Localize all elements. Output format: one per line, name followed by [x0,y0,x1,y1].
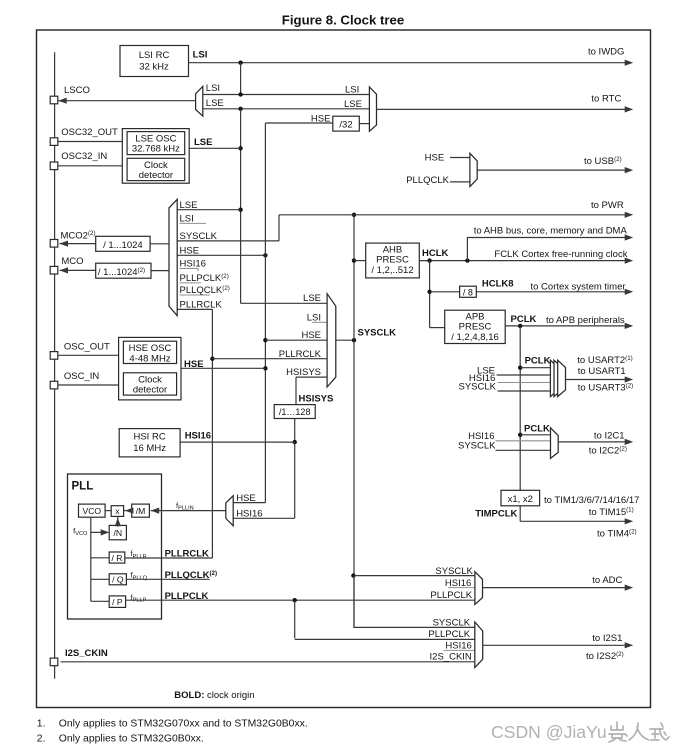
svg-text:SYSCLK: SYSCLK [180,231,218,242]
svg-text:Figure 8. Clock tree: Figure 8. Clock tree [282,12,404,27]
svg-text:HCLK: HCLK [422,248,449,259]
svg-text:to PWR: to PWR [591,200,624,211]
svg-text:Only applies to STM32G0B0xx.: Only applies to STM32G0B0xx. [59,734,204,745]
svg-text:1.: 1. [37,719,46,730]
svg-text:/ R: / R [112,553,123,563]
svg-text:to APB peripherals: to APB peripherals [546,315,625,326]
svg-text:x1, x2: x1, x2 [508,494,533,505]
svg-text:PLLRCLK: PLLRCLK [180,300,223,311]
svg-text:BOLD: clock origin: BOLD: clock origin [174,690,254,701]
svg-text:SYSCLK: SYSCLK [433,617,471,628]
svg-text:/ 1,2,..512: / 1,2,..512 [371,265,413,276]
svg-text:detector: detector [133,385,167,396]
svg-text:/ 1...1024: / 1...1024 [103,240,143,251]
svg-text:PCLK: PCLK [511,314,537,325]
svg-text:LSI RC: LSI RC [139,50,170,61]
svg-text:PLLQCLK: PLLQCLK [406,175,449,186]
svg-text:/ 8: / 8 [463,287,473,297]
svg-text:2.: 2. [37,734,46,745]
svg-text:to RTC: to RTC [591,94,621,105]
svg-text:to I2S1: to I2S1 [592,633,622,644]
svg-text:OSC_OUT: OSC_OUT [64,341,110,352]
svg-text:FCLK Cortex free-running clock: FCLK Cortex free-running clock [494,249,627,260]
svg-text:PCLK: PCLK [525,356,551,367]
svg-text:PLLPCLK: PLLPCLK [428,629,470,640]
svg-text:HSE OSC: HSE OSC [129,343,172,354]
svg-text:LSE OSC: LSE OSC [135,133,176,144]
svg-text:PRESC: PRESC [376,255,409,266]
svg-text:LSI: LSI [180,214,194,225]
svg-text:HSE: HSE [180,245,200,256]
svg-text:HSE: HSE [301,330,321,341]
svg-text:/ 1,2,4,8,16: / 1,2,4,8,16 [451,332,499,343]
svg-text:LSE: LSE [194,137,212,148]
svg-text:HCLK8: HCLK8 [482,279,514,290]
svg-text:SYSCLK: SYSCLK [459,382,497,393]
svg-text:to IWDG: to IWDG [588,46,624,57]
svg-text:PLL: PLL [72,480,94,492]
svg-text:to USART1: to USART1 [578,366,626,377]
svg-text:VCO: VCO [82,506,101,516]
svg-text:LSCO: LSCO [64,85,90,96]
svg-text:I2S_CKIN: I2S_CKIN [65,648,108,659]
svg-text:HSISYS: HSISYS [299,393,334,404]
svg-text:HSI16: HSI16 [185,431,211,442]
svg-text:I2S_CKIN: I2S_CKIN [430,651,472,662]
svg-text:/32: /32 [339,119,352,130]
svg-text:PLLPCLK: PLLPCLK [430,590,472,601]
svg-text:LSE: LSE [180,200,198,211]
svg-text:OSC32_IN: OSC32_IN [61,151,107,162]
svg-text:HSE: HSE [425,153,445,164]
svg-text:LSE: LSE [303,293,321,304]
svg-text:LSI: LSI [345,85,359,96]
svg-text:to USART3(2): to USART3(2) [578,383,633,394]
svg-text:32.768 kHz: 32.768 kHz [132,144,180,155]
svg-text:MCO: MCO [61,256,83,267]
svg-text:to TIM1/3/6/7/14/16/17: to TIM1/3/6/7/14/16/17 [544,495,639,506]
svg-text:LSI: LSI [307,312,321,323]
svg-text:HSI16: HSI16 [236,508,262,519]
svg-text:CSDN @JiaYu: CSDN @JiaYu [491,722,607,742]
svg-text:detector: detector [139,170,173,181]
svg-text:to USART2(1): to USART2(1) [577,355,632,366]
svg-text:/M: /M [136,506,146,516]
svg-text:16 MHz: 16 MHz [133,443,166,454]
svg-text:to AHB bus, core, memory and D: to AHB bus, core, memory and DMA [474,226,628,237]
svg-text:/ Q: / Q [112,575,124,585]
svg-text:to I2C1: to I2C1 [594,431,625,442]
svg-text:HSI16: HSI16 [445,640,471,651]
svg-text:LSI: LSI [193,50,208,61]
svg-text:TIMPCLK: TIMPCLK [475,508,517,519]
svg-text:to Cortex system timer: to Cortex system timer [531,281,626,292]
svg-text:x: x [115,506,120,516]
svg-text:to ADC: to ADC [592,575,622,586]
svg-text:4-48 MHz: 4-48 MHz [129,353,170,364]
svg-text:LSE: LSE [344,99,362,110]
svg-text:LSI: LSI [206,83,220,94]
svg-text:PRESC: PRESC [459,322,492,333]
svg-text:HSI16: HSI16 [180,259,206,270]
svg-text:SYSCLK: SYSCLK [358,327,397,338]
svg-text:/1…128: /1…128 [279,407,311,417]
svg-text:PCLK: PCLK [524,424,550,435]
svg-text:/N: /N [114,528,123,538]
svg-text:32 kHz: 32 kHz [139,62,169,73]
svg-text:OSC_IN: OSC_IN [64,371,100,382]
svg-text:HSI RC: HSI RC [133,431,165,442]
svg-text:LSE: LSE [206,98,224,109]
svg-text:SYSCLK: SYSCLK [458,440,496,451]
svg-text:/ P: / P [112,597,123,607]
svg-text:OSC32_OUT: OSC32_OUT [61,127,118,138]
svg-text:Only applies to STM32G070xx an: Only applies to STM32G070xx and to STM32… [59,719,308,730]
